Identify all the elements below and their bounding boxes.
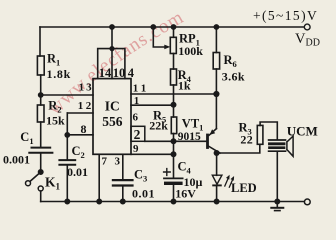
transistor VT1 emitter arrowhead xyxy=(210,129,216,135)
pin 14 and pin 10 top boxes xyxy=(98,49,125,79)
node bottom-right terminal circle xyxy=(304,199,310,205)
capacitor C4 electrolytic xyxy=(164,177,183,179)
wire C3 to ground xyxy=(122,187,124,202)
svg-text:15k: 15k xyxy=(46,113,65,127)
svg-text:7: 7 xyxy=(102,155,108,167)
svg-text:3: 3 xyxy=(115,155,121,167)
svg-text:9015: 9015 xyxy=(178,131,201,143)
svg-text:4: 4 xyxy=(128,66,135,80)
resistor R2 xyxy=(37,105,44,122)
node C3 ground dot xyxy=(121,199,125,203)
node supply drop dot xyxy=(110,25,114,29)
wire LED to ground xyxy=(216,185,218,201)
diode LED triangle xyxy=(212,175,222,184)
LED emission arrows xyxy=(225,177,234,187)
wire RP1 wiper xyxy=(153,27,165,47)
node pin7 ground dot xyxy=(97,199,101,203)
resistor R1 xyxy=(37,56,44,75)
speaker UCM element bars xyxy=(269,139,286,141)
wire C2 to ground rail xyxy=(66,166,68,202)
svg-text:14: 14 xyxy=(99,66,112,80)
svg-text:1.8k: 1.8k xyxy=(47,67,71,81)
capacitor C3 xyxy=(113,179,133,181)
wire pin 12 xyxy=(67,112,93,114)
RP1 wiper arrowhead xyxy=(164,45,170,50)
node LED ground dot xyxy=(214,199,218,203)
svg-text:C3: C3 xyxy=(134,168,147,184)
svg-text:10: 10 xyxy=(113,66,126,80)
svg-text:1k: 1k xyxy=(178,78,191,92)
wire pin 3 to C3 xyxy=(122,154,124,179)
svg-text:C1: C1 xyxy=(20,130,33,146)
svg-text:22: 22 xyxy=(240,133,253,147)
pin 2 box xyxy=(131,126,145,141)
svg-text:0.01: 0.01 xyxy=(132,186,155,200)
wire pin 8 xyxy=(67,134,93,136)
svg-text:9: 9 xyxy=(133,143,139,155)
svg-text:C2: C2 xyxy=(72,144,85,160)
transistor VT1 base bar xyxy=(206,134,209,149)
node E emitter junction dot xyxy=(214,92,219,97)
node pin2 column dot xyxy=(171,139,175,143)
wire pin 11 xyxy=(131,93,216,95)
wire C1 to K1 xyxy=(40,154,42,172)
svg-text:22k: 22k xyxy=(149,119,168,133)
node pin13 junction dot xyxy=(39,93,43,97)
wire pin 2 to base xyxy=(145,140,207,142)
wire R6 to emitter node xyxy=(215,69,217,94)
wire R1 to R2 xyxy=(40,75,42,105)
wire R5 down column xyxy=(173,134,175,178)
node RP1 top rail dot xyxy=(171,25,175,29)
diode LED cathode bar xyxy=(213,184,221,186)
wire pin 13 xyxy=(41,94,93,96)
svg-text:556: 556 xyxy=(102,114,123,129)
wire C4 to ground xyxy=(173,185,175,202)
svg-text:1: 1 xyxy=(134,95,140,107)
svg-text:6: 6 xyxy=(133,111,139,123)
node pin1 junction dot xyxy=(171,103,175,107)
svg-text:C4: C4 xyxy=(178,159,192,175)
wire rail to R6 xyxy=(215,27,217,53)
node R6 rail dot xyxy=(214,25,218,29)
resistor R5 xyxy=(171,117,176,134)
wire pin 7 to ground xyxy=(98,154,100,201)
ground symbol xyxy=(276,202,278,208)
svg-text:8: 8 xyxy=(81,122,87,136)
node RP1 wiper rail dot xyxy=(151,25,155,29)
resistor R6 xyxy=(213,53,219,70)
node C2 ground dot xyxy=(65,199,69,203)
svg-text:0.01: 0.01 xyxy=(67,165,88,179)
potentiometer RP1 xyxy=(170,37,176,53)
svg-text:K1: K1 xyxy=(45,174,61,191)
wire rail to RP1 xyxy=(173,27,175,37)
transistor VT1 collector lead xyxy=(209,146,220,153)
wire RP1 to R4 xyxy=(173,54,175,70)
wire pin 9 xyxy=(131,153,174,155)
wire K1 to ground rail xyxy=(40,191,42,202)
wire supply to pins 14 10 xyxy=(111,27,113,49)
wire R3 top loop to speaker xyxy=(260,122,277,139)
svg-text:R6: R6 xyxy=(224,53,237,69)
svg-text:R1: R1 xyxy=(47,52,60,68)
wire bottom ground rail xyxy=(41,201,305,203)
svg-text:2: 2 xyxy=(134,127,141,142)
wire R4 to R5 xyxy=(173,85,175,117)
resistor R4 xyxy=(171,69,177,85)
svg-text:3.6k: 3.6k xyxy=(222,70,245,84)
node C4 ground dot xyxy=(171,199,175,203)
svg-text:0.001: 0.001 xyxy=(3,152,30,166)
wire top supply rail xyxy=(40,26,304,28)
wire pin 1 xyxy=(131,104,174,106)
svg-text:100k: 100k xyxy=(178,44,203,58)
svg-text:16V: 16V xyxy=(175,187,196,201)
svg-text:+(5~15)V: +(5~15)V xyxy=(253,8,318,23)
svg-text:UCM: UCM xyxy=(287,124,318,139)
switch K1 xyxy=(30,172,41,181)
capacitor C4 plus sign xyxy=(164,169,171,176)
svg-text:12: 12 xyxy=(78,100,94,112)
svg-text:IC: IC xyxy=(105,99,120,114)
op-amp U1 IC 556 body xyxy=(93,79,131,155)
resistor R3 xyxy=(257,125,263,144)
wire C2 column xyxy=(66,113,68,160)
svg-text:LED: LED xyxy=(231,181,257,195)
wire speaker to ground xyxy=(276,152,278,201)
wire emitter vertical xyxy=(215,94,217,129)
capacitor C2 xyxy=(59,159,75,161)
wire R1 column top xyxy=(39,27,41,56)
svg-text:13: 13 xyxy=(79,82,94,94)
wire collector line to R3 xyxy=(220,144,260,153)
node pin8 C2 junction dot xyxy=(65,133,69,137)
node VDD terminal circle xyxy=(304,24,310,30)
node pin14-10 box top dot xyxy=(110,47,114,51)
svg-text:11: 11 xyxy=(133,82,149,94)
node K1 junction dot xyxy=(39,170,43,174)
svg-text:VDD: VDD xyxy=(295,31,320,49)
node LED collector dot xyxy=(214,151,218,155)
speaker UCM cone xyxy=(287,136,293,156)
node speaker ground dot xyxy=(275,199,279,203)
capacitor C1 xyxy=(32,147,51,149)
wire R2 to C1 xyxy=(40,122,42,147)
LED vertical wire xyxy=(216,153,218,175)
node pin9 column dot xyxy=(171,152,175,156)
transistor VT1 emitter lead xyxy=(209,129,216,136)
